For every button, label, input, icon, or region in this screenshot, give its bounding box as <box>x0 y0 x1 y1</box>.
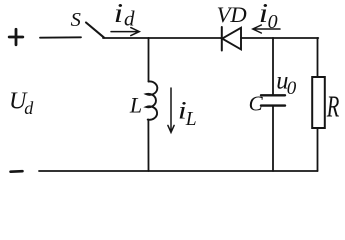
svg-text:L: L <box>185 109 197 130</box>
wire from node B to top-right corner <box>317 38 319 77</box>
capacitor C bottom lead <box>272 106 274 171</box>
capacitor C bottom plate <box>261 104 285 106</box>
svg-text:L: L <box>129 92 142 117</box>
svg-text:0: 0 <box>268 11 278 33</box>
wire from + terminal to switch S left contact <box>40 36 81 38</box>
svg-text:C: C <box>249 92 264 116</box>
bottom return wire (minus rail) <box>39 170 318 172</box>
svg-text:d: d <box>124 7 135 31</box>
resistor R body <box>312 77 325 128</box>
plus terminal <box>9 29 23 44</box>
svg-text:VD: VD <box>217 2 247 27</box>
current arrow i_0 <box>253 25 280 33</box>
current arrow i_L <box>168 88 174 132</box>
svg-text:R: R <box>326 89 340 123</box>
svg-text:i: i <box>114 0 123 28</box>
diode VD triangle (anode right, pointing left) <box>222 28 241 50</box>
svg-text:0: 0 <box>287 78 297 99</box>
switch S blade <box>86 23 104 38</box>
svg-text:S: S <box>71 9 81 31</box>
wire from switch to node A (top of inductor) <box>103 37 149 39</box>
capacitor C top lead <box>272 38 274 95</box>
inductor L coil <box>146 81 157 119</box>
node B junction (capacitor tap) <box>273 37 318 39</box>
node A junction (switch/inductor/diode) <box>149 37 222 39</box>
current arrow i_d <box>111 28 139 36</box>
wire from diode anode to node B (top of capacitor) <box>241 37 273 39</box>
resistor R bottom lead <box>317 128 319 171</box>
inductor L bottom lead <box>147 120 149 171</box>
capacitor C top plate <box>261 94 285 96</box>
minus terminal <box>11 170 23 173</box>
diode VD cathode bar <box>221 27 223 51</box>
svg-text:d: d <box>24 98 34 118</box>
inductor L top lead <box>148 38 150 82</box>
